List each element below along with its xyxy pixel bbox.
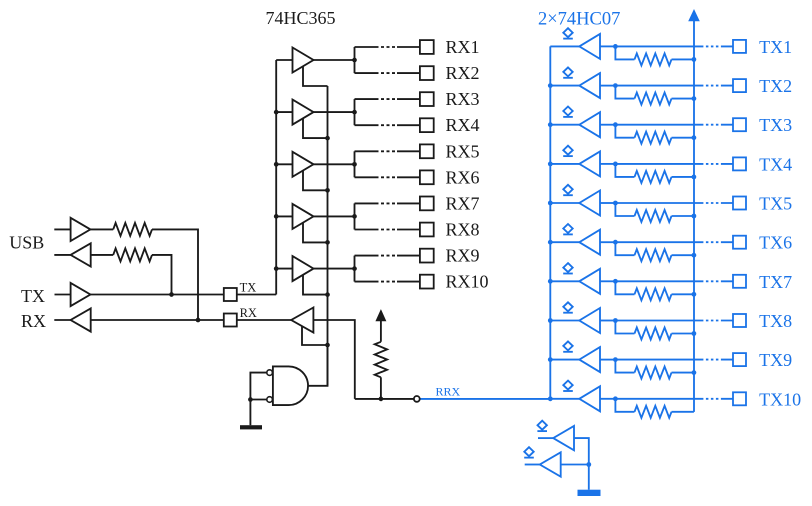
svg-text:TX: TX [240,280,257,294]
svg-text:TX1: TX1 [759,37,792,57]
svg-text:TX8: TX8 [759,311,792,331]
svg-text:TX: TX [21,286,45,306]
svg-text:RX2: RX2 [446,63,480,83]
svg-text:TX7: TX7 [759,272,792,292]
svg-text:RX5: RX5 [446,141,480,161]
svg-text:RX7: RX7 [446,193,480,213]
svg-text:TX4: TX4 [759,154,792,174]
svg-text:TX3: TX3 [759,115,792,135]
svg-text:RX3: RX3 [446,89,480,109]
svg-text:RRX: RRX [436,385,461,399]
svg-text:TX5: TX5 [759,194,792,214]
svg-text:2×74HC07: 2×74HC07 [538,10,620,30]
svg-text:TX6: TX6 [759,233,792,253]
svg-text:74HC365: 74HC365 [266,8,336,28]
svg-text:RX1: RX1 [446,37,480,57]
svg-text:RX: RX [240,306,257,320]
svg-text:RX9: RX9 [446,246,480,266]
svg-text:RX: RX [21,311,46,331]
svg-text:RX8: RX8 [446,219,480,239]
svg-text:USB: USB [9,233,44,253]
svg-text:RX4: RX4 [446,115,480,135]
svg-text:TX10: TX10 [759,389,801,409]
svg-text:RX6: RX6 [446,167,480,187]
svg-text:TX2: TX2 [759,76,792,96]
svg-text:RX10: RX10 [446,272,489,292]
svg-text:TX9: TX9 [759,350,792,370]
